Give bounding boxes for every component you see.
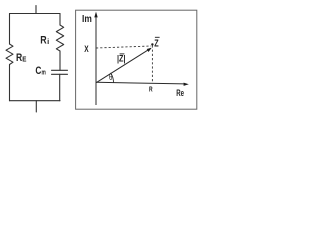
svg-text:Re: Re — [176, 88, 184, 98]
svg-text:|Z|: |Z| — [117, 54, 126, 64]
svg-text:Im: Im — [82, 13, 92, 25]
svg-text:R: R — [149, 84, 153, 93]
svg-text:Z: Z — [154, 38, 158, 49]
svg-text:i: i — [47, 37, 49, 46]
svg-text:R: R — [16, 52, 22, 64]
svg-text:R: R — [40, 34, 46, 46]
svg-text:E: E — [22, 54, 26, 63]
svg-text:X: X — [84, 44, 88, 54]
svg-text:m: m — [42, 69, 46, 76]
svg-text:θ: θ — [109, 72, 112, 82]
